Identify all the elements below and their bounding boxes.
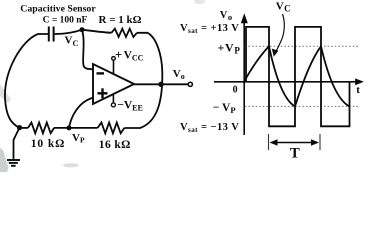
- op-amp plus input sign: [98, 88, 108, 98]
- wire node VC to op-amp inverting input: [82, 30, 93, 69]
- graph y-axis: [243, 20, 245, 135]
- wire node VP to op-amp non-inverting input: [69, 98, 93, 128]
- ground stem: [14, 128, 20, 160]
- svg-text:T: T: [290, 146, 300, 162]
- waveform Vo square wave: [246, 27, 350, 126]
- graph y-axis arrowhead: [241, 13, 248, 23]
- svg-text:t: t: [356, 84, 360, 96]
- period T double arrow: [272, 142, 318, 144]
- svg-text:C = 100 nF: C = 100 nF: [43, 16, 88, 26]
- ground symbol bars: [7, 160, 20, 166]
- waveform VC exponential curve: [244, 46, 350, 106]
- svg-text:10 kΩ: 10 kΩ: [31, 138, 65, 150]
- graph x-axis arrowhead: [355, 78, 364, 85]
- dotted line +VP level: [245, 45, 359, 47]
- node VC dot: [80, 27, 85, 32]
- op-amp U1 triangle: [93, 64, 134, 104]
- node ground-rail dot: [17, 125, 22, 130]
- resistor 10k zigzag: [28, 123, 54, 134]
- wire node VC to resistor R: [82, 30, 111, 33]
- period T left tick: [268, 134, 270, 150]
- svg-text:Vo: Vo: [220, 10, 232, 22]
- op-amp VCC pin: [113, 60, 115, 74]
- wire 10k to 16k through node VP: [54, 127, 98, 129]
- op-amp VEE pin: [112, 95, 114, 103]
- wire capacitor-left to ground node (left bow): [5, 34, 49, 128]
- period T right tick: [319, 134, 321, 150]
- pointer VC squiggle arrow: [276, 14, 284, 52]
- dotted line -VP level: [245, 105, 359, 107]
- terminal Vo open circle: [188, 82, 192, 86]
- op-amp minus input sign: [97, 72, 105, 74]
- wire capacitor-right to node VC: [55, 30, 82, 34]
- svg-text:+: +: [115, 47, 122, 62]
- wire ground node to 10k resistor: [20, 127, 29, 129]
- svg-text:R = 1 kΩ: R = 1 kΩ: [99, 14, 142, 26]
- svg-text:16 kΩ: 16 kΩ: [99, 139, 131, 151]
- graph x-axis: [214, 81, 356, 83]
- node VP dot: [67, 125, 72, 130]
- resistor 16k zigzag: [98, 123, 125, 134]
- wire resistor R to output node (right bow upper): [125, 33, 163, 128]
- capacitor C plates: [49, 27, 54, 42]
- node output dot: [158, 82, 163, 87]
- svg-text:0: 0: [233, 85, 238, 96]
- svg-text:Capacitive Sensor: Capacitive Sensor: [20, 3, 96, 14]
- wire op-amp output to terminal: [134, 83, 188, 85]
- resistor R1 zigzag: [111, 29, 136, 37]
